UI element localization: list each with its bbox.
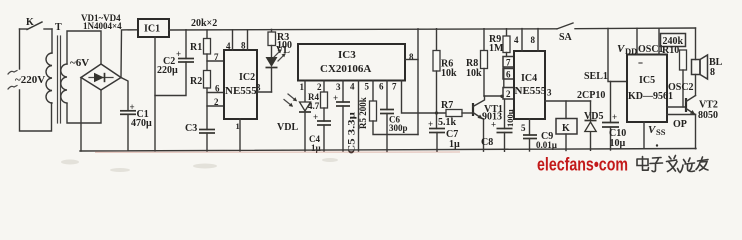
- VDL incoming arrows: [284, 94, 297, 107]
- svg-text:7: 7: [214, 52, 219, 62]
- switch SA blade: [557, 23, 573, 29]
- capacitor C3: [199, 130, 215, 152]
- svg-text:220µ: 220µ: [157, 65, 178, 76]
- IC4 pin5 wire: [529, 119, 531, 135]
- svg-text:3: 3: [547, 88, 552, 98]
- svg-text:C5 3.3µ: C5 3.3µ: [347, 111, 357, 154]
- IC2 pin8 wire: [247, 30, 249, 50]
- svg-text:CX20106A: CX20106A: [320, 63, 371, 75]
- wire pin6 to IC2: [207, 92, 224, 94]
- resistor R3: [268, 29, 276, 57]
- svg-text:~6V: ~6V: [70, 57, 89, 69]
- VDD pin wire: [636, 28, 638, 54]
- wire IC1 gnd to C2 bottom: [155, 62, 186, 96]
- svg-text:NE555: NE555: [225, 85, 257, 97]
- watermark chinese char you: [696, 157, 708, 171]
- svg-text:1M: 1M: [489, 43, 504, 54]
- resistor R10: [680, 50, 687, 107]
- wire bridge plus output up to IC1 input: [121, 30, 138, 78]
- svg-text:IC4: IC4: [521, 73, 537, 84]
- capacitor C2: [178, 30, 194, 62]
- svg-text:4: 4: [350, 82, 355, 92]
- svg-text:IC2: IC2: [239, 72, 255, 83]
- IC2 pin1 wire to ground: [239, 119, 241, 151]
- relay K drop wire: [565, 101, 567, 119]
- amplifier IC3: [298, 44, 405, 81]
- transistor VT1: [473, 96, 485, 151]
- svg-text:SS: SS: [656, 127, 666, 137]
- svg-text:10k: 10k: [466, 68, 482, 79]
- IC4 pin2 box: [503, 88, 514, 100]
- wire bridge minus output to ground rail: [80, 78, 82, 152]
- bottom ground rail: [80, 149, 696, 152]
- svg-text:elecfans•com: elecfans•com: [537, 155, 628, 175]
- wire VT2 emitter to ground: [695, 115, 697, 149]
- svg-text:5: 5: [365, 82, 370, 92]
- timer IC4: [514, 51, 547, 119]
- svg-text:C8: C8: [481, 137, 493, 148]
- transformer core lines: [58, 36, 61, 123]
- relay K ground wire: [565, 134, 567, 151]
- svg-text:+: +: [130, 102, 135, 112]
- transformer secondary winding: [61, 64, 67, 103]
- scan dot below VSS: [656, 144, 658, 146]
- IC3 pin4 wire to ground: [358, 81, 360, 152]
- svg-text:IC5: IC5: [639, 75, 655, 86]
- IC4 pin3 wire: [545, 100, 591, 102]
- svg-text:4: 4: [226, 41, 231, 51]
- svg-text:4: 4: [514, 35, 519, 45]
- bridge inner diode: [89, 73, 113, 82]
- wire pin6 to pin2 link: [503, 67, 505, 88]
- svg-text:SEL1: SEL1: [584, 71, 608, 82]
- speaker BL: [692, 55, 708, 79]
- LED VL emission arrows: [274, 49, 286, 61]
- svg-text:VT2: VT2: [699, 100, 718, 111]
- resistor R4: [321, 92, 328, 121]
- 240k boxed label: [661, 34, 686, 48]
- IC3 pin2 wire: [323, 81, 325, 93]
- svg-text:IC1: IC1: [144, 24, 160, 35]
- svg-text:6: 6: [215, 84, 220, 94]
- svg-text:OP: OP: [673, 119, 687, 130]
- svg-text:K: K: [562, 123, 570, 134]
- wire pin2 to IC2: [207, 105, 224, 107]
- resistor R1: [204, 30, 211, 71]
- IC2 pin4 wire: [232, 30, 234, 50]
- resistor R8: [481, 29, 488, 96]
- scan red tinge under rail: [95, 151, 460, 153]
- svg-text:3: 3: [256, 83, 261, 93]
- wire 220V loop left side lower: [20, 90, 52, 131]
- wire secondary top to loop top: [67, 31, 101, 64]
- wire C1 tap: [121, 78, 128, 111]
- transformer primary winding: [46, 53, 52, 103]
- svg-text:5: 5: [521, 123, 526, 133]
- svg-text:6: 6: [379, 82, 384, 92]
- photodiode VDL: [299, 102, 311, 151]
- svg-text:8: 8: [241, 41, 246, 51]
- capacitor C9: [523, 135, 537, 151]
- watermark chinese char shao: [680, 158, 695, 173]
- relay K: [556, 119, 577, 135]
- wire pin7 to IC2: [207, 60, 224, 62]
- resistor R9: [503, 29, 510, 57]
- svg-text:2CP10: 2CP10: [577, 90, 605, 101]
- svg-text:+: +: [313, 112, 318, 122]
- svg-text:1µ: 1µ: [449, 139, 460, 150]
- IC3 pin3 wire: [342, 81, 344, 103]
- svg-text:IC3: IC3: [338, 49, 356, 61]
- timer IC2: [224, 50, 257, 119]
- SEL1 drop wire: [608, 28, 627, 81]
- svg-text:NE555: NE555: [515, 85, 547, 97]
- svg-text:6: 6: [506, 70, 511, 80]
- svg-text:~220V: ~220V: [15, 74, 45, 86]
- svg-text:470µ: 470µ: [131, 118, 152, 129]
- watermark chinese char dian: [637, 157, 649, 171]
- OP wire: [667, 114, 696, 116]
- IC3 pin8 wire to VCC: [405, 59, 418, 61]
- svg-text:3: 3: [336, 82, 341, 92]
- svg-text:5.1k: 5.1k: [438, 117, 457, 128]
- IC3 pin5 wire: [372, 81, 374, 102]
- IC2 pin3 wire: [257, 91, 272, 93]
- svg-text:1N4004×4: 1N4004×4: [83, 21, 122, 31]
- LED VL: [266, 57, 278, 92]
- svg-text:R2: R2: [190, 76, 202, 87]
- svg-text:SA: SA: [559, 32, 573, 43]
- resistor R6: [433, 29, 440, 129]
- IC3 pin1 wire: [304, 81, 306, 102]
- bridge rectifier VD1-VD4 diamond: [81, 64, 121, 90]
- svg-text:8: 8: [710, 67, 715, 78]
- svg-text:R1: R1: [190, 42, 202, 53]
- svg-text:8: 8: [531, 35, 536, 45]
- wire IC1 ground pin down: [154, 37, 156, 151]
- top power rail right of SA: [575, 27, 696, 30]
- svg-text:8050: 8050: [698, 110, 718, 121]
- svg-text:2: 2: [506, 89, 511, 99]
- IC4 pin8 wire: [537, 29, 539, 51]
- wire secondary bottom to bridge bottom vertex: [67, 90, 101, 123]
- svg-text:1: 1: [236, 121, 240, 131]
- svg-text:+: +: [176, 49, 181, 59]
- svg-text:7: 7: [506, 58, 511, 68]
- IC3 pin7 wire to R7: [402, 81, 447, 114]
- svg-text:1µ: 1µ: [311, 143, 322, 153]
- top power rail left of SA: [169, 29, 557, 30]
- svg-text:R5 200k: R5 200k: [358, 97, 368, 129]
- IC3 pin6 wire: [386, 81, 388, 110]
- capacitor C8: [497, 99, 513, 151]
- resistor R2: [204, 71, 211, 130]
- svg-text:4.7: 4.7: [308, 101, 320, 111]
- svg-text:R10: R10: [662, 45, 679, 56]
- wire VT2 collector to speaker: [695, 75, 697, 96]
- svg-text:300p: 300p: [389, 123, 408, 133]
- scan smudges: [61, 158, 338, 172]
- svg-text:10k: 10k: [441, 68, 457, 79]
- svg-text:T: T: [55, 22, 62, 33]
- watermark chinese char fa: [667, 156, 680, 172]
- capacitor C7: [429, 129, 445, 152]
- svg-text:KD—9561: KD—9561: [628, 91, 673, 102]
- capacitor C10: [602, 82, 619, 151]
- svg-text:OSC2: OSC2: [668, 82, 694, 93]
- wire rail to speaker: [695, 28, 697, 60]
- resistor R5: [370, 101, 419, 135]
- IC4 pin6 box: [503, 69, 514, 80]
- melody IC5: [627, 55, 673, 123]
- wire 220V loop left side upper: [19, 29, 21, 69]
- svg-text:DD: DD: [625, 46, 637, 56]
- capacitor C5: [336, 102, 350, 151]
- svg-text:OSC1: OSC1: [638, 44, 664, 55]
- svg-text:+: +: [491, 120, 496, 130]
- wire primary top feed: [51, 29, 53, 53]
- svg-text:2: 2: [214, 97, 219, 107]
- OSC2 wire to VT2 base: [667, 106, 686, 108]
- IC4 pin4 wire: [521, 29, 523, 51]
- svg-text:8: 8: [409, 52, 414, 62]
- capacitor C1: [120, 111, 136, 151]
- svg-text:10µ: 10µ: [610, 138, 626, 149]
- wire collector node to IC4 pin2: [484, 95, 503, 97]
- OSC1 pin wire: [658, 28, 660, 54]
- AC terminal arrow bottom: [8, 86, 17, 90]
- capacitor C6: [380, 110, 394, 152]
- svg-text:2: 2: [317, 82, 322, 92]
- resistor R7: [435, 110, 473, 117]
- regulator IC1: [138, 19, 169, 37]
- AC terminal arrow top: [8, 71, 17, 75]
- diode VD5: [585, 101, 597, 150]
- svg-text:+: +: [612, 112, 617, 122]
- svg-text:C3: C3: [185, 123, 197, 134]
- capacitor C4: [317, 121, 331, 151]
- svg-text:+: +: [333, 93, 338, 103]
- svg-text:VD5: VD5: [584, 111, 603, 122]
- IC4 pin7 box: [503, 57, 514, 68]
- VSS pin wire: [643, 122, 645, 148]
- svg-text:20k×2: 20k×2: [191, 18, 217, 29]
- svg-text:7: 7: [392, 82, 397, 92]
- svg-text:1: 1: [300, 82, 305, 92]
- svg-text:VDL: VDL: [277, 122, 298, 133]
- svg-text:+: +: [428, 119, 433, 129]
- switch K: [20, 22, 53, 30]
- wire VCC drop to R5 line: [417, 29, 419, 135]
- transistor VT2: [686, 96, 696, 115]
- watermark chinese char zi: [650, 158, 663, 172]
